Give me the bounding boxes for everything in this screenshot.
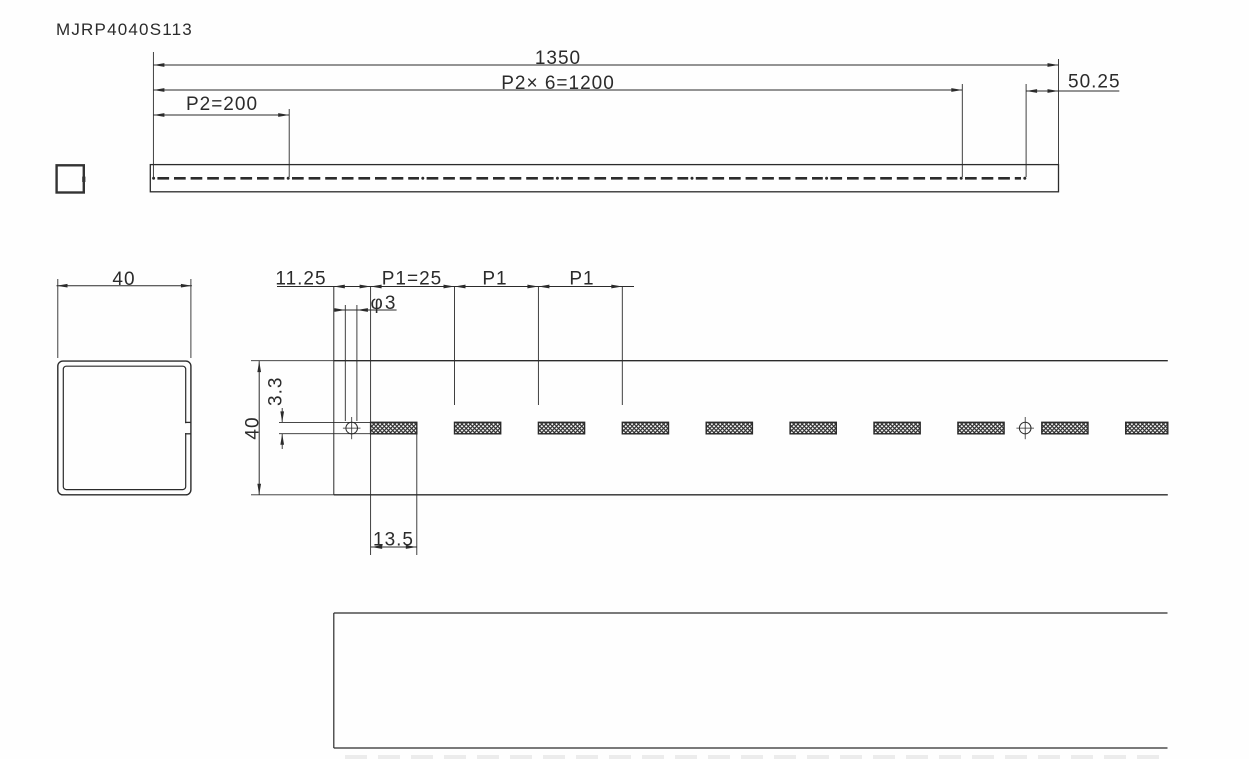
detail top dimension arrowheads xyxy=(334,285,345,289)
svg-text:11.25: 11.25 xyxy=(275,268,326,289)
cross-section: outer tube wall xyxy=(58,361,191,495)
slot 8 (hatched) xyxy=(958,422,1004,434)
slot 4 (hatched) xyxy=(622,422,668,434)
slot 10 (hatched) xyxy=(1126,422,1168,434)
cross-section dimension 40 line xyxy=(57,285,192,287)
dimension 50.25 line xyxy=(1026,90,1119,92)
detail view: bar left edge with extension up to dim line xyxy=(333,287,335,495)
svg-text:P1: P1 xyxy=(482,268,507,289)
dimension P2=200 line xyxy=(153,114,289,116)
cross-section 40 extension lines xyxy=(57,279,59,358)
slot 7 (hatched) xyxy=(874,422,920,434)
hole phi3 right (circle with cross) xyxy=(1019,422,1031,434)
dimension phi3 line and arrows xyxy=(334,309,397,311)
top view extension lines xyxy=(152,52,154,177)
detail view: bar top edge xyxy=(334,360,1168,362)
slot 2 (hatched) xyxy=(455,422,501,434)
slot 1 (hatched) xyxy=(371,422,417,434)
dimension 40 extension lines xyxy=(251,360,334,362)
dimension P2x6=1200 line xyxy=(153,89,962,91)
svg-text:40: 40 xyxy=(112,269,135,290)
bottom view: bar left edge xyxy=(333,613,335,748)
top view: end cap square xyxy=(57,165,84,192)
dimension 3.3 extension lines xyxy=(279,421,371,423)
svg-text:P1=25: P1=25 xyxy=(382,268,442,289)
detail view: bar bottom edge xyxy=(334,494,1168,496)
detail view extension lines from top dim xyxy=(370,287,372,423)
dimension 40 (bar height) line xyxy=(258,361,260,495)
slot 3 (hatched) xyxy=(538,422,584,434)
top view: tube body outline xyxy=(150,165,1058,192)
svg-text:P1: P1 xyxy=(569,268,594,289)
svg-text:40: 40 xyxy=(243,416,264,439)
13.5 extension lines xyxy=(370,434,372,555)
top view: end cap slot notch xyxy=(82,177,85,182)
bottom clipped view: faint slot hatch slivers xyxy=(345,755,1165,759)
top view dimension arrowheads xyxy=(153,63,164,67)
top view: slot center line (bold dashed) xyxy=(157,177,284,180)
bottom view: bar bottom edge xyxy=(334,747,1168,749)
svg-text:1350: 1350 xyxy=(535,48,581,69)
dimension 1350 line xyxy=(153,64,1058,66)
svg-text:MJRP4040S113: MJRP4040S113 xyxy=(56,20,193,39)
hole phi3 left (circle with cross) xyxy=(346,422,358,434)
slot 5 (hatched) xyxy=(706,422,752,434)
cross-section: inner tube wall xyxy=(63,366,185,489)
svg-text:P2=200: P2=200 xyxy=(186,94,258,115)
svg-text:13.5: 13.5 xyxy=(373,530,414,551)
svg-text:φ3: φ3 xyxy=(371,293,398,314)
svg-text:50.25: 50.25 xyxy=(1068,72,1121,93)
dimension 3.3 (slot width) xyxy=(281,408,283,422)
slot 6 (hatched) xyxy=(790,422,836,434)
dimension 13.5 (slot length) xyxy=(371,546,417,548)
cross-section: slot notch through right wall (inner wall interrupted) xyxy=(184,423,188,433)
detail top dimension line (11.25 / P1=25 / P1 / P1) xyxy=(277,286,634,288)
slot 9 (hatched) xyxy=(1042,422,1088,434)
svg-text:P2× 6=1200: P2× 6=1200 xyxy=(501,73,615,94)
bottom view: bar top edge xyxy=(334,612,1168,614)
top view: hole position dots on center line xyxy=(152,177,155,180)
svg-text:3.3: 3.3 xyxy=(266,377,287,406)
phi3 extension lines xyxy=(344,305,346,421)
